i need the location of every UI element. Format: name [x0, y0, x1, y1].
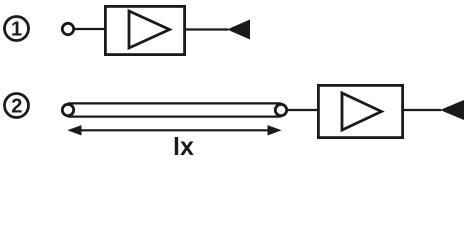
wire [287, 109, 317, 111]
wire [74, 28, 104, 30]
matched load Z1 (filled triangle) [227, 20, 250, 40]
wire [404, 109, 441, 111]
terminal T1 (open circle) [62, 23, 73, 34]
amplifier A1 [105, 6, 184, 54]
amplifier A2 [318, 85, 402, 137]
svg-text:lx: lx [173, 133, 194, 161]
wire [186, 28, 228, 30]
node 1 marker [5, 17, 29, 41]
svg-text:2: 2 [11, 96, 22, 118]
dimension arrow lx [67, 125, 281, 135]
transmission line (length lx) [62, 103, 286, 116]
matched load Z2 (filled triangle) [440, 100, 464, 120]
svg-text:1: 1 [11, 19, 22, 41]
node 2 marker [5, 94, 29, 118]
